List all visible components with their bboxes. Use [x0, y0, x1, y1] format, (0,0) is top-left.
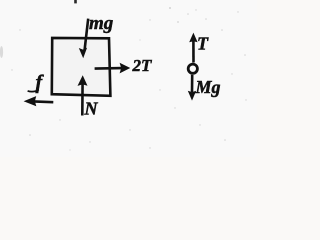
hanging mass point (circle) [188, 64, 197, 73]
svg-text:mg: mg [89, 13, 113, 34]
force arrow 2T (right, from inside box through right edge) [95, 63, 131, 74]
force arrow mg (down, through top edge) [79, 19, 88, 59]
stray scan mark top [74, 0, 77, 3]
scan speckle noise [11, 7, 246, 151]
weight arrow Mg (down from circle) [188, 75, 196, 101]
svg-text:T: T [197, 34, 209, 54]
svg-text:N: N [84, 99, 99, 119]
svg-text:Mg: Mg [195, 77, 221, 97]
faint smudge left edge [0, 46, 3, 58]
f bottom hook stroke [28, 90, 39, 92]
svg-text:2T: 2T [132, 56, 153, 75]
force arrow N (up, through bottom edge) [78, 75, 88, 115]
tension arrow T (up from circle) [189, 33, 197, 63]
block (box) of mass m [52, 38, 111, 96]
force arrow f (left, friction at bottom-left) [24, 96, 54, 106]
